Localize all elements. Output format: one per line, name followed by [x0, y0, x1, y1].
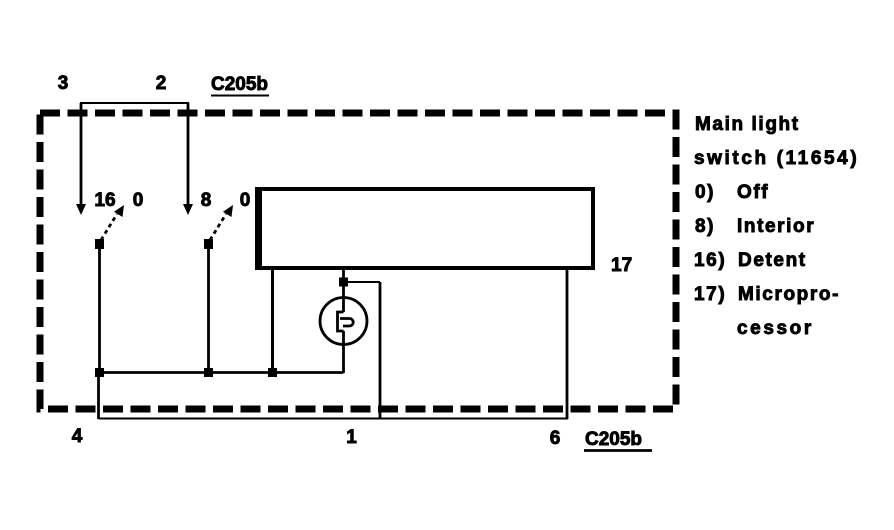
svg-text:17): 17)	[694, 284, 726, 305]
svg-text:cessor: cessor	[737, 318, 814, 339]
svg-text:6: 6	[550, 428, 561, 449]
svg-text:16: 16	[94, 190, 115, 211]
svg-text:0): 0)	[695, 182, 715, 203]
svg-text:Micropro-: Micropro-	[738, 284, 840, 305]
svg-text:0: 0	[133, 190, 144, 211]
svg-text:17: 17	[611, 255, 632, 276]
svg-text:Main light: Main light	[695, 114, 800, 135]
svg-text:Interior: Interior	[737, 216, 815, 237]
svg-text:0: 0	[240, 190, 251, 211]
svg-text:switch (11654): switch (11654)	[694, 148, 859, 169]
svg-text:C205b: C205b	[211, 74, 268, 95]
svg-text:Detent: Detent	[738, 250, 807, 271]
svg-text:2: 2	[156, 73, 167, 94]
svg-text:4: 4	[72, 426, 83, 447]
svg-text:8: 8	[201, 190, 212, 211]
svg-text:Off: Off	[737, 182, 769, 203]
svg-text:C205b: C205b	[585, 429, 642, 450]
svg-text:16): 16)	[694, 250, 726, 271]
svg-text:3: 3	[58, 73, 69, 94]
svg-text:1: 1	[346, 427, 357, 448]
svg-text:8): 8)	[695, 216, 715, 237]
